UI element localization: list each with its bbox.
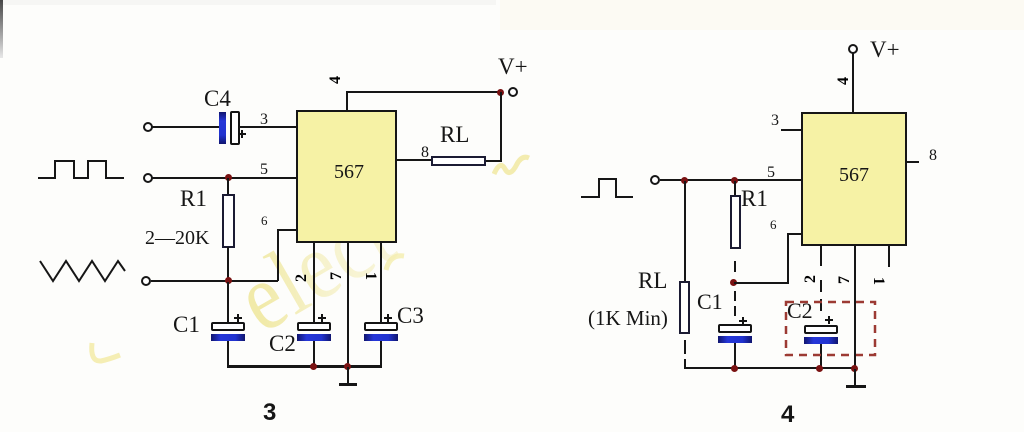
wire V+ rail vertical	[500, 92, 502, 162]
capacitor C3 bottom lead	[380, 341, 382, 366]
pin label 1 (rotated)	[362, 268, 378, 284]
label C2	[269, 332, 296, 355]
square wave symbol	[36, 158, 128, 182]
IC U1 567	[296, 110, 397, 243]
pin label 7 right (rotated)	[837, 272, 853, 288]
node R1 top	[731, 177, 738, 184]
ground bus wire	[227, 365, 382, 368]
wire pin 1 stub right	[888, 246, 890, 267]
resistor RL body	[431, 156, 486, 166]
capacitor C1 right top plate	[718, 324, 752, 333]
capacitor C3 plus sign	[384, 317, 392, 319]
capacitor C2 right bottom lead	[820, 344, 822, 368]
capacitor C1 right plus	[739, 320, 747, 322]
wire input to pin 5	[660, 179, 801, 181]
watermark small mark bottom-left	[88, 340, 124, 366]
resistor R1 right body	[730, 195, 741, 249]
watermark squiggle right of RL	[492, 152, 532, 180]
wire up to pin 6	[277, 229, 279, 281]
wire J2 to pin 5	[152, 177, 297, 179]
label V+ right	[870, 38, 900, 61]
scan artifact left edge bar	[0, 0, 3, 58]
capacitor C1 bottom plate	[211, 334, 245, 341]
wire node to pin 6 horizontal	[734, 282, 789, 284]
wire pin 2 dash 1	[820, 280, 822, 292]
pin label 4 right (rotated)	[836, 73, 852, 89]
resistor R1 body	[222, 194, 235, 248]
label C1 right	[697, 291, 723, 313]
resistor RL body right	[679, 281, 690, 334]
node C1 to bus right	[731, 365, 738, 372]
terminal V+	[508, 87, 518, 97]
wire into pin 6	[277, 229, 297, 231]
wire pin 2 solid	[820, 246, 822, 266]
wire pin 2 dash 2	[820, 299, 822, 311]
node R1 bottom junction	[225, 277, 232, 284]
pin label 6	[261, 214, 268, 227]
label RL	[440, 123, 469, 146]
wire into pin 6 right	[787, 233, 801, 235]
node R1 bottom right	[730, 279, 737, 286]
capacitor C4 positive plate	[230, 111, 240, 145]
label C3	[397, 304, 424, 327]
ground bus wire right	[684, 367, 856, 370]
pin label 4 (rotated)	[328, 72, 344, 88]
wire pin 7	[347, 243, 349, 367]
wire RL to rail	[486, 160, 501, 162]
dashed lead to C1 dash 1	[734, 291, 736, 301]
ground symbol bar right	[846, 385, 866, 388]
node R1 top junction	[225, 174, 232, 181]
capacitor C1 bottom lead	[227, 341, 229, 366]
wire pin 3 stub	[781, 129, 801, 131]
ground symbol stem	[347, 367, 349, 383]
capacitor C4 negative plate	[219, 112, 226, 144]
dashed lead R1 to node	[734, 261, 736, 272]
capacitor C2 top plate	[297, 322, 331, 331]
input terminal J2 (pin 5 row)	[143, 173, 153, 183]
node C2 to bus right	[816, 365, 823, 372]
capacitor C2 bottom lead	[313, 341, 315, 366]
wire pin 6 vertical	[787, 233, 789, 283]
input terminal right	[650, 175, 660, 185]
capacitor C1 top lead	[227, 282, 229, 322]
pin label 6 right	[770, 218, 777, 231]
ground symbol bar	[339, 383, 357, 386]
pin label 3 right	[771, 113, 779, 129]
watermark text "elect"	[222, 185, 409, 348]
pin label 1 right (rotated)	[870, 273, 886, 289]
capacitor C1 right bottom lead	[734, 343, 736, 368]
label RL right	[638, 269, 667, 292]
wire pin 8 stub	[397, 159, 431, 161]
wire C4 to pin 3	[239, 126, 297, 128]
label 1K Min	[588, 308, 668, 329]
scan artifact cream band top right	[500, 0, 1024, 30]
capacitor C3 top plate	[364, 322, 398, 331]
pin label 3	[260, 112, 268, 128]
wire pin 7 right	[854, 246, 856, 368]
pin label 8 right	[929, 148, 937, 164]
watermark small mark near IC bottom	[382, 250, 408, 274]
capacitor C1 right bottom plate	[718, 336, 752, 343]
wire pin 8 stub right	[907, 161, 919, 163]
node pin7 to bus right	[851, 365, 858, 372]
ground symbol stem right	[854, 369, 856, 385]
label V+	[498, 55, 528, 78]
node RL top	[681, 177, 688, 184]
capacitor C1 plus sign	[234, 317, 242, 319]
pin label 7 (rotated)	[329, 268, 345, 284]
IC U2 567	[801, 112, 907, 246]
capacitor C2 plus sign	[318, 317, 326, 319]
node pin7 to bus	[344, 363, 351, 370]
label 2-20K	[145, 228, 209, 248]
dashed lead to C1 dash 2	[734, 306, 736, 316]
capacitor C4 plus sign	[238, 133, 246, 135]
wire pin 4 vertical	[346, 92, 348, 111]
node C2 to bus	[310, 363, 317, 370]
label C1	[173, 313, 200, 336]
resistor R1 top lead	[227, 178, 229, 195]
pin label 2 (rotated)	[294, 270, 310, 286]
caption 3	[263, 401, 276, 425]
wire J1 to C4	[152, 126, 219, 128]
wire J3 right	[151, 280, 278, 282]
caption 4	[781, 403, 794, 427]
resistor R1 right top lead	[734, 181, 736, 195]
capacitor C3 bottom plate	[364, 334, 398, 341]
capacitor C2 bottom plate	[297, 334, 331, 341]
resistor R1 bottom lead	[227, 247, 229, 282]
resistor RL dashed lead 1	[684, 340, 686, 354]
wire pin 2	[313, 243, 315, 322]
wire pin 1	[380, 243, 382, 322]
pin label 2 right (rotated)	[803, 271, 819, 287]
red dashed box around C2	[783, 299, 878, 359]
node V+ junction	[497, 89, 504, 96]
input terminal J1 (pin 3 row)	[143, 122, 153, 132]
pin label 5	[260, 162, 268, 178]
label R1	[180, 187, 207, 210]
capacitor C2 right bottom plate	[804, 337, 838, 344]
wire pin 4 to V+ rail	[346, 91, 502, 93]
capacitor C1 top plate	[211, 322, 245, 331]
square wave symbol right	[579, 176, 637, 200]
input terminal J3 (pin 6 row)	[141, 276, 151, 286]
terminal V+ right	[848, 44, 858, 54]
label R1 right	[741, 187, 768, 210]
triangle wave symbol	[36, 258, 128, 284]
capacitor C2 right plus	[825, 319, 833, 321]
resistor RL top lead	[684, 181, 686, 281]
wire V+ to pin 4	[852, 53, 854, 112]
scan artifact top band	[0, 0, 496, 5]
resistor RL dashed lead 2	[684, 359, 686, 368]
pin label 5 right	[767, 165, 775, 181]
pin label 8	[421, 145, 429, 161]
capacitor C2 right top plate	[804, 325, 838, 334]
label C4	[204, 87, 231, 110]
label C2 right	[787, 300, 813, 322]
